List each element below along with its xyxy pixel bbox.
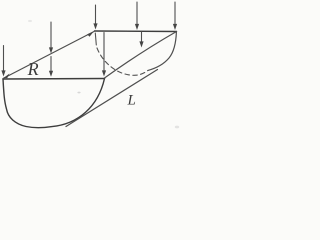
front semicircle arc bbox=[3, 79, 105, 128]
front diameter line bbox=[3, 78, 105, 81]
load arrow 2 bbox=[49, 22, 53, 54]
load arrow 8 bbox=[173, 2, 177, 30]
back arc hidden start stub bbox=[95, 33, 96, 45]
arrowhead at front-left end of left edge bbox=[4, 74, 10, 79]
faint scan speck bbox=[175, 126, 179, 129]
load arrow 4 bbox=[93, 5, 97, 30]
right edge (front-right corner to back-right corner) bbox=[105, 32, 177, 79]
load arrow 1 bbox=[1, 46, 5, 77]
load arrow 3 bbox=[49, 57, 53, 77]
faint scan speck bbox=[28, 20, 32, 22]
back diameter line bbox=[95, 30, 177, 33]
load arrow 5 bbox=[102, 33, 106, 77]
arrowhead at back-left end of left edge bbox=[87, 32, 93, 37]
load arrow 6 bbox=[135, 2, 139, 30]
faint scan speck bbox=[77, 92, 80, 94]
left edge (front-left corner to back-left corner) bbox=[3, 32, 94, 79]
svg-text:R: R bbox=[27, 59, 39, 79]
svg-text:L: L bbox=[127, 93, 136, 109]
load arrow 7 bbox=[139, 32, 143, 48]
back arc dashed (hidden) bbox=[97, 48, 148, 75]
silhouette tangent line (lower lateral edge) bbox=[66, 70, 158, 127]
back arc visible (solid right part) bbox=[148, 32, 176, 71]
